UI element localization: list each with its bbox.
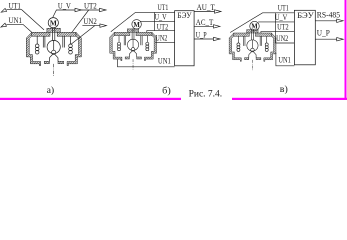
wire UT2 leader a bbox=[72, 10, 100, 32]
wire UN1 v bbox=[276, 53, 295, 66]
magenta bottom rule right bbox=[232, 98, 347, 100]
wire AU_T out bbox=[194, 11, 214, 13]
arrow UN2 (right) bbox=[100, 24, 107, 27]
wire U_V leader a bbox=[53, 10, 75, 18]
wire UT1 leader a bbox=[6, 10, 44, 30]
svg-text:UT1: UT1 bbox=[9, 1, 21, 10]
svg-text:UN1: UN1 bbox=[158, 56, 171, 65]
svg-text:БЭУ: БЭУ bbox=[297, 11, 313, 20]
svg-text:RS-485: RS-485 bbox=[317, 11, 340, 20]
svg-text:Рис. 7.4.: Рис. 7.4. bbox=[189, 90, 223, 100]
svg-text:в): в) bbox=[280, 84, 288, 95]
arrow UT2 (right) bbox=[100, 8, 107, 11]
magenta bottom rule left bbox=[0, 98, 181, 100]
ladder vertical b bbox=[154, 12, 156, 30]
arrow AC_T bbox=[214, 25, 221, 28]
svg-text:UT2: UT2 bbox=[157, 22, 168, 31]
wire UN2 leader a bbox=[71, 26, 101, 45]
wire UT2 b bbox=[147, 31, 175, 33]
svg-text:U_V: U_V bbox=[155, 13, 167, 22]
svg-text:б): б) bbox=[162, 86, 171, 97]
svg-text:а): а) bbox=[47, 85, 55, 96]
arrow RS-485 bbox=[337, 19, 344, 22]
wire UN2 b bbox=[155, 42, 175, 44]
motor M b bbox=[132, 20, 141, 29]
wire U_P out b bbox=[194, 38, 213, 40]
ladder vertical v bbox=[274, 13, 276, 43]
svg-text:UT2: UT2 bbox=[84, 2, 97, 11]
wire UN2 v bbox=[275, 42, 294, 44]
svg-text:U_V: U_V bbox=[58, 2, 71, 11]
svg-text:БЭУ: БЭУ bbox=[177, 11, 191, 20]
svg-text:UT1: UT1 bbox=[158, 3, 169, 12]
arrow UN1 (left) bbox=[1, 23, 7, 27]
device a bbox=[26, 28, 81, 76]
arrow AU_T bbox=[215, 10, 222, 13]
wire UT1 v bbox=[230, 13, 294, 33]
wire AC_T out bbox=[194, 25, 213, 27]
arrow U_P b bbox=[214, 37, 221, 40]
device b bbox=[110, 28, 157, 69]
svg-text:U_P: U_P bbox=[317, 29, 330, 38]
svg-text:UN1: UN1 bbox=[278, 56, 290, 65]
wire U_P out v bbox=[315, 38, 337, 40]
motor M v bbox=[250, 21, 259, 30]
svg-text:U_V: U_V bbox=[275, 13, 287, 22]
arrow UT1 (left) bbox=[1, 8, 6, 12]
wire RS-485 out bbox=[315, 20, 337, 22]
box BEU v bbox=[294, 10, 315, 65]
wire UN1 leader a bbox=[6, 24, 31, 32]
wire U_V v bbox=[258, 21, 294, 23]
motor M a bbox=[48, 18, 58, 28]
svg-text:UN1: UN1 bbox=[9, 16, 22, 25]
svg-text:U_P: U_P bbox=[196, 30, 207, 39]
wire UT2 v bbox=[261, 32, 295, 33]
svg-text:UT2: UT2 bbox=[277, 23, 289, 32]
svg-text:AU_T: AU_T bbox=[197, 3, 215, 12]
wire UN1 b bbox=[118, 59, 175, 67]
svg-text:AC_T: AC_T bbox=[196, 18, 213, 27]
svg-text:UN2: UN2 bbox=[155, 34, 167, 43]
svg-text:UT1: UT1 bbox=[278, 4, 289, 13]
svg-text:UN2: UN2 bbox=[83, 17, 96, 26]
arrow U_P v bbox=[337, 38, 344, 41]
magenta right border bbox=[345, 0, 347, 100]
wire U_V b bbox=[140, 20, 174, 22]
device v bbox=[229, 29, 276, 70]
wire UT1 b bbox=[111, 12, 175, 31]
arrow U_V (right) bbox=[75, 8, 82, 11]
svg-text:UN2: UN2 bbox=[276, 34, 288, 43]
box BEU b bbox=[175, 11, 195, 66]
